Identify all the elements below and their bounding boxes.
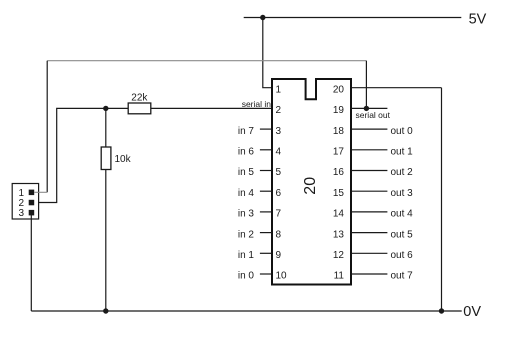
wire out4 stub bbox=[352, 211, 388, 213]
svg-text:10: 10 bbox=[276, 271, 288, 282]
svg-text:out 1: out 1 bbox=[391, 147, 414, 158]
svg-text:out 5: out 5 bbox=[391, 229, 414, 240]
svg-text:serial out: serial out bbox=[356, 110, 391, 120]
resistor R1 22k bbox=[128, 103, 151, 114]
svg-text:18: 18 bbox=[333, 126, 345, 137]
svg-text:4: 4 bbox=[276, 147, 282, 158]
IC notch bbox=[306, 78, 316, 99]
wire 22k to IC pin 2 bbox=[151, 107, 272, 109]
wire 5V to IC pin 1 bbox=[263, 18, 272, 88]
wire serial-out drop bbox=[365, 61, 367, 109]
wire out2 stub bbox=[352, 170, 388, 172]
svg-text:in 3: in 3 bbox=[238, 209, 255, 220]
wire left outer vertical bbox=[46, 61, 48, 193]
svg-text:out 4: out 4 bbox=[391, 209, 414, 220]
svg-text:17: 17 bbox=[333, 147, 345, 158]
svg-text:in 5: in 5 bbox=[238, 167, 255, 178]
wire 5V rail bbox=[244, 17, 462, 19]
svg-text:20: 20 bbox=[302, 177, 319, 195]
svg-text:1: 1 bbox=[276, 84, 282, 95]
wire out7 stub bbox=[352, 273, 388, 275]
wire node to 10k bbox=[105, 108, 107, 147]
wire serial-out top run (gray) bbox=[47, 60, 366, 62]
svg-text:16: 16 bbox=[333, 167, 345, 178]
wire in5 stub bbox=[260, 170, 272, 172]
wire in2 stub bbox=[260, 232, 272, 234]
junction serial out bbox=[364, 106, 369, 111]
pin 2 pad bbox=[29, 200, 35, 206]
svg-text:12: 12 bbox=[333, 250, 345, 261]
IC U1 body bbox=[272, 79, 351, 285]
svg-text:13: 13 bbox=[333, 229, 345, 240]
wire connector pin3 to 0V bbox=[30, 215, 32, 311]
wire out1 stub bbox=[352, 149, 388, 151]
svg-text:8: 8 bbox=[276, 229, 282, 240]
wire out0 stub bbox=[352, 128, 388, 130]
wire pin20 to right rail bbox=[352, 87, 442, 89]
wire in1 stub bbox=[260, 252, 272, 254]
pin 3 pad bbox=[29, 210, 35, 216]
svg-text:3: 3 bbox=[18, 208, 24, 219]
svg-text:out 6: out 6 bbox=[391, 250, 414, 261]
connector J1 body bbox=[12, 184, 38, 220]
pin 1 pad bbox=[29, 190, 35, 196]
svg-text:serial in: serial in bbox=[242, 99, 272, 109]
svg-text:14: 14 bbox=[333, 209, 345, 220]
svg-text:in 4: in 4 bbox=[238, 188, 255, 199]
svg-text:out 7: out 7 bbox=[391, 271, 414, 282]
svg-text:in 7: in 7 bbox=[238, 126, 255, 137]
wire in3 stub bbox=[260, 211, 272, 213]
svg-text:15: 15 bbox=[333, 188, 345, 199]
resistor R2 10k bbox=[101, 147, 111, 170]
svg-text:6: 6 bbox=[276, 188, 282, 199]
junction on 5V rail bbox=[260, 15, 265, 20]
junction serial-in node bbox=[103, 106, 108, 111]
svg-text:out 3: out 3 bbox=[391, 188, 414, 199]
svg-text:9: 9 bbox=[276, 250, 282, 261]
svg-text:7: 7 bbox=[276, 209, 282, 220]
wire in4 stub bbox=[260, 190, 272, 192]
wire 10k to 0V bbox=[105, 170, 107, 312]
wire connector pin2 to serial-in bbox=[34, 108, 129, 202]
wire 0V rail bbox=[31, 310, 461, 312]
svg-text:22k: 22k bbox=[131, 92, 148, 103]
junction 10k at 0V bbox=[103, 308, 108, 313]
svg-text:out 0: out 0 bbox=[391, 126, 414, 137]
svg-text:3: 3 bbox=[276, 126, 282, 137]
svg-text:out 2: out 2 bbox=[391, 167, 414, 178]
svg-text:in 1: in 1 bbox=[238, 250, 255, 261]
wire out5 stub bbox=[352, 232, 388, 234]
svg-text:10k: 10k bbox=[115, 154, 132, 165]
svg-text:19: 19 bbox=[333, 105, 345, 116]
wire out3 stub bbox=[352, 190, 388, 192]
junction right rail at 0V bbox=[439, 308, 444, 313]
wire in7 stub bbox=[260, 128, 272, 130]
svg-text:in 6: in 6 bbox=[238, 147, 255, 158]
svg-text:5V: 5V bbox=[469, 11, 487, 27]
wire in0 stub bbox=[260, 273, 272, 275]
svg-text:in 0: in 0 bbox=[238, 271, 255, 282]
svg-text:2: 2 bbox=[276, 105, 282, 116]
wire out6 stub bbox=[352, 252, 388, 254]
svg-text:11: 11 bbox=[334, 271, 345, 282]
wire connector pin1 stub (gray) bbox=[34, 191, 47, 193]
svg-text:20: 20 bbox=[333, 84, 345, 95]
svg-text:in 2: in 2 bbox=[238, 229, 255, 240]
svg-text:0V: 0V bbox=[463, 304, 481, 320]
wire pin19 serial-out stub bbox=[352, 107, 388, 109]
svg-text:5: 5 bbox=[276, 167, 282, 178]
wire right rail vertical bbox=[441, 88, 443, 311]
wire in6 stub bbox=[260, 149, 272, 151]
